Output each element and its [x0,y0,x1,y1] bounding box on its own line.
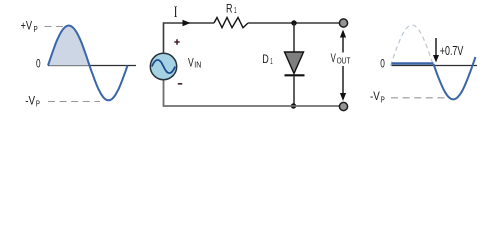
diode D1 triangle [285,52,304,74]
AC source V_IN circle [150,53,176,79]
wire: resistor to top-right terminal [248,22,339,24]
svg-text:-V: -V [25,93,35,107]
svg-text:D: D [262,52,269,66]
source - polarity mark [178,83,183,85]
svg-text:R: R [226,1,233,15]
input waveform 0-axis [48,65,136,67]
+Vp dashed level line [45,26,64,28]
svg-text:+0.7V: +0.7V [440,44,464,58]
svg-text:P: P [36,100,40,109]
AC source sine symbol [152,60,175,73]
Vout arrow up [342,37,344,53]
svg-text:-V: -V [370,89,380,103]
+0.7V annotation arrow [435,38,437,56]
svg-text:1: 1 [234,5,237,15]
junction node (top) [291,20,296,25]
top-right output terminal [339,19,347,27]
wire: source top to resistor [164,23,215,53]
svg-text:1: 1 [270,56,273,66]
clipped positive half (dashed arc) [391,25,434,66]
wire: diode cathode to bottom wire [293,77,295,107]
svg-text:0: 0 [380,58,385,70]
svg-text:P: P [381,95,385,104]
output waveform 0-axis [392,65,478,67]
resistor R1 zigzag [214,18,248,28]
junction node (bottom) [291,103,296,108]
Vout arrow down [342,66,344,94]
svg-text:OUT: OUT [337,57,351,66]
source + polarity mark [174,39,179,44]
bottom wire [164,80,340,106]
svg-text:0: 0 [36,59,41,71]
svg-text:V: V [331,51,336,65]
wire: junction to diode anode [293,23,295,52]
svg-text:V: V [188,55,194,69]
svg-text:I: I [174,4,178,21]
bottom-right output terminal [339,102,347,110]
svg-text:P: P [34,25,38,34]
clipped flat output at +0.7V [392,62,434,65]
input sine negative half [90,66,128,101]
input sine positive half (filled) [48,26,90,66]
diode D1 cathode bar [285,74,305,76]
-Vp dashed level line (input) [48,101,100,103]
svg-text:IN: IN [194,61,201,70]
svg-text:+V: +V [21,18,33,32]
current arrow on top wire [183,20,191,26]
-Vp dashed level line (output) [391,97,446,99]
output sine negative half [434,57,476,99]
